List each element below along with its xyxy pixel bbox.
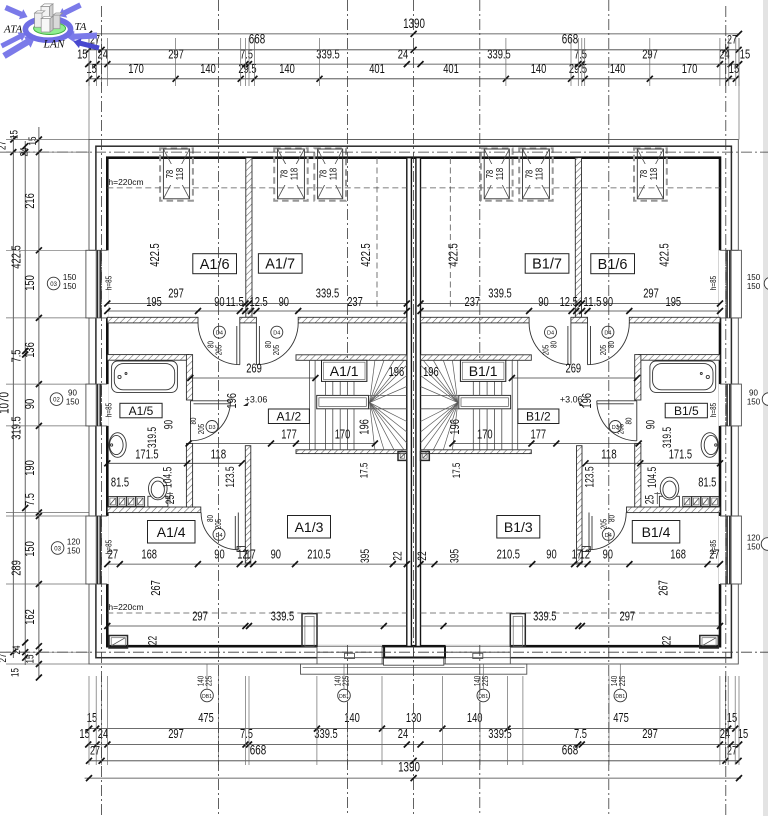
room label B1/4 — [632, 521, 680, 544]
svg-text:118: 118 — [648, 168, 660, 181]
svg-text:269: 269 — [566, 361, 582, 376]
wall W3s stairwell top — [296, 355, 407, 361]
svg-text:237: 237 — [347, 294, 363, 309]
toilet B4 — [659, 496, 679, 506]
svg-text:B1/1: B1/1 — [469, 363, 498, 379]
svg-text:150: 150 — [747, 273, 761, 282]
svg-text:27: 27 — [709, 547, 719, 562]
wall W2 right segment — [298, 317, 407, 323]
svg-text:03: 03 — [50, 282, 57, 288]
svg-text:205: 205 — [213, 519, 223, 530]
dim line 177 170 y443 — [189, 443, 375, 445]
svg-text:15: 15 — [9, 130, 21, 139]
svg-text:120: 120 — [67, 538, 81, 547]
svg-text:297: 297 — [642, 726, 658, 741]
svg-text:319.5: 319.5 — [145, 427, 159, 449]
svg-text:297: 297 — [168, 286, 184, 301]
svg-text:81.5: 81.5 — [111, 475, 129, 490]
svg-text:90: 90 — [162, 420, 176, 430]
svg-text:339.5: 339.5 — [316, 286, 339, 301]
svg-text:D4: D4 — [604, 331, 611, 337]
wall W4 lower mirror — [635, 443, 641, 507]
svg-text:17: 17 — [245, 547, 255, 562]
door D3 bathroom B5 mirror — [597, 401, 637, 441]
chimney at stair A — [398, 452, 407, 461]
svg-text:90: 90 — [279, 294, 289, 309]
room label B1/6 — [591, 254, 635, 274]
svg-text:24: 24 — [398, 726, 408, 741]
svg-text:12.5: 12.5 — [250, 294, 268, 309]
wall W4 upper — [186, 355, 192, 400]
room label B1/3 — [497, 516, 540, 539]
svg-text:195: 195 — [666, 294, 682, 309]
svg-text:205: 205 — [540, 345, 550, 356]
svg-text:15: 15 — [86, 61, 96, 76]
staircase B1/1 — [517, 360, 519, 450]
top extension lines — [88, 38, 90, 86]
wall W2 corridor left segment — [107, 317, 198, 323]
svg-text:269: 269 — [246, 361, 262, 376]
attic height dashed line top A — [107, 187, 407, 189]
svg-text:339.5: 339.5 — [314, 726, 337, 741]
window marker right bottom — [761, 538, 768, 551]
svg-text:D4: D4 — [216, 331, 223, 337]
room label A1/5 — [120, 403, 162, 418]
window in side wall — [719, 384, 740, 426]
svg-text:150: 150 — [747, 543, 761, 552]
svg-text:170: 170 — [477, 427, 493, 442]
wall W2 mirror right segment — [421, 317, 530, 323]
svg-text:195: 195 — [146, 294, 162, 309]
room width dim line y303 — [107, 303, 407, 305]
svg-text:150: 150 — [63, 282, 77, 291]
svg-text:104.5: 104.5 — [645, 466, 659, 488]
svg-text:22: 22 — [391, 551, 405, 560]
window marker right middle — [762, 393, 768, 406]
svg-text:422.5: 422.5 — [9, 245, 24, 268]
svg-text:D4: D4 — [215, 533, 222, 539]
svg-text:118: 118 — [174, 168, 186, 181]
svg-text:140: 140 — [279, 61, 295, 76]
party wall right leaf — [416, 158, 421, 647]
staircase A1/1 — [309, 360, 311, 450]
exterior wall mid line — [96, 146, 732, 658]
wall W1 between rooms 6-7 — [246, 158, 252, 318]
wall stub W6 — [237, 547, 245, 552]
window in side wall — [88, 250, 109, 318]
grid axis vertical x3 top — [347, 0, 349, 358]
wall stub W6 mirror — [582, 547, 590, 552]
svg-text:170: 170 — [128, 61, 144, 76]
svg-text:170: 170 — [335, 427, 351, 442]
svg-text:15: 15 — [10, 668, 22, 677]
svg-text:90: 90 — [644, 420, 658, 430]
wall W2 mid segment — [240, 317, 257, 323]
washer squares B — [710, 497, 719, 507]
door jamb stub B — [510, 614, 525, 647]
svg-text:B1/4: B1/4 — [642, 524, 671, 540]
svg-text:205: 205 — [196, 424, 206, 435]
svg-text:196: 196 — [357, 419, 372, 435]
svg-text:395: 395 — [358, 549, 372, 563]
window marker 03 left top — [47, 277, 60, 290]
svg-text:A1/7: A1/7 — [265, 257, 295, 273]
svg-text:150: 150 — [66, 398, 80, 407]
svg-text:D4: D4 — [273, 331, 280, 337]
svg-text:475: 475 — [198, 710, 214, 725]
svg-text:118: 118 — [328, 168, 340, 181]
svg-text:TA: TA — [75, 21, 87, 33]
svg-text:1070: 1070 — [0, 392, 12, 414]
window in side wall — [88, 384, 109, 426]
svg-text:168: 168 — [141, 547, 157, 562]
attic height dashed line bottom B — [421, 612, 721, 614]
svg-text:339.5: 339.5 — [533, 609, 556, 624]
svg-text:D4: D4 — [547, 331, 554, 337]
skylight roof window 78x118 — [314, 148, 346, 200]
svg-text:140: 140 — [344, 710, 360, 725]
party wall left leaf — [407, 158, 412, 647]
svg-text:D4: D4 — [605, 533, 612, 539]
svg-text:7.5: 7.5 — [574, 726, 587, 741]
grid axis vertical x2 mirror — [608, 0, 610, 816]
svg-text:297: 297 — [192, 609, 208, 624]
svg-text:196: 196 — [389, 364, 405, 379]
left dim column 1070 — [12, 135, 14, 658]
wall W2 mirror mid segment — [571, 317, 588, 323]
svg-text:395: 395 — [447, 549, 461, 563]
svg-text:A1/1: A1/1 — [330, 363, 359, 379]
corridor dim 269 — [190, 377, 315, 379]
left dim column 2 — [24, 141, 26, 665]
svg-text:90: 90 — [214, 547, 224, 562]
svg-text:02: 02 — [53, 398, 60, 404]
dim line 171.5 118 y463 — [107, 462, 242, 464]
dashed extension lines in rooms — [376, 158, 378, 310]
svg-text:90: 90 — [749, 389, 758, 398]
bottom dimension row 15 24 297 7.5 339.5 24 — [88, 744, 739, 746]
svg-text:A1/2: A1/2 — [277, 410, 302, 424]
svg-text:123.5: 123.5 — [582, 466, 596, 488]
bottom door opening A — [317, 645, 382, 664]
svg-text:11.5: 11.5 — [583, 294, 601, 309]
svg-text:196: 196 — [423, 364, 439, 379]
wall W5 bathroom bottom — [107, 507, 201, 513]
svg-text:29.5: 29.5 — [238, 61, 256, 76]
svg-text:168: 168 — [670, 547, 686, 562]
window in side wall — [719, 250, 740, 318]
svg-text:12.5: 12.5 — [560, 294, 578, 309]
svg-text:297: 297 — [168, 726, 184, 741]
svg-text:123.5: 123.5 — [223, 466, 237, 488]
svg-text:140: 140 — [610, 61, 626, 76]
door D4 room A4 — [201, 513, 238, 550]
svg-text:319.5: 319.5 — [9, 416, 24, 439]
svg-text:17.5: 17.5 — [358, 463, 370, 479]
grid axis vertical center party wall — [413, 0, 415, 816]
svg-text:90: 90 — [603, 547, 613, 562]
svg-text:150: 150 — [63, 273, 77, 282]
svg-text:289: 289 — [9, 560, 24, 576]
svg-text:A1/6: A1/6 — [200, 257, 230, 273]
svg-text:216: 216 — [22, 193, 37, 209]
svg-text:D3: D3 — [208, 425, 215, 431]
attic height dashed line top B — [421, 187, 721, 189]
svg-text:90: 90 — [538, 294, 548, 309]
svg-text:15: 15 — [77, 47, 87, 62]
svg-text:668: 668 — [250, 742, 266, 757]
top dimension row 1390 — [89, 33, 739, 35]
door jamb stub A — [302, 614, 317, 647]
wall W3s stairwell top mirror — [421, 355, 532, 361]
bottom dimension row 1390 — [85, 777, 741, 779]
svg-text:297: 297 — [168, 47, 184, 62]
svg-text:339.5: 339.5 — [487, 47, 510, 62]
svg-text:150: 150 — [22, 541, 37, 557]
top dimension row 15 24 297 7.5 339.5 24 — [88, 63, 739, 65]
wall W7 vertical A3-A4 mirror — [577, 446, 583, 563]
svg-text:205: 205 — [615, 424, 625, 435]
towel radiator A — [169, 492, 171, 504]
svg-text:140: 140 — [531, 61, 547, 76]
svg-text:h=85: h=85 — [708, 403, 718, 417]
washer squares A — [108, 497, 117, 507]
washbasin A5 — [109, 433, 126, 458]
svg-text:668: 668 — [249, 32, 265, 47]
svg-text:177: 177 — [281, 427, 297, 442]
svg-text:118: 118 — [288, 168, 300, 181]
svg-text:401: 401 — [369, 61, 385, 76]
toilet A4 — [148, 496, 168, 506]
svg-text:90: 90 — [546, 547, 556, 562]
svg-text:267: 267 — [148, 580, 163, 596]
svg-text:205: 205 — [598, 519, 608, 530]
svg-text:339.5: 339.5 — [488, 286, 511, 301]
bottom extension lines — [88, 676, 90, 765]
svg-text:B1/2: B1/2 — [526, 410, 551, 424]
svg-text:1390: 1390 — [403, 16, 425, 31]
door D4 room B6 mirror — [588, 323, 630, 365]
svg-text:DB1: DB1 — [615, 694, 625, 700]
svg-text:237: 237 — [465, 294, 481, 309]
window marker right top — [764, 277, 768, 290]
svg-text:319.5: 319.5 — [660, 427, 674, 449]
skylight roof window 78x118 — [634, 148, 667, 200]
wall W4 upper mirror — [635, 355, 641, 400]
svg-text:118: 118 — [534, 168, 546, 181]
room label B1/2 — [518, 409, 559, 424]
svg-text:h=85: h=85 — [104, 403, 114, 417]
svg-text:27: 27 — [0, 654, 9, 663]
svg-text:668: 668 — [562, 32, 578, 47]
bathtub A5 — [112, 361, 178, 392]
svg-text:196: 196 — [447, 419, 462, 435]
grid axis horizontal top — [0, 151, 768, 153]
svg-text:90: 90 — [271, 547, 281, 562]
svg-text:24: 24 — [720, 726, 730, 741]
svg-text:339.5: 339.5 — [488, 726, 511, 741]
svg-text:15: 15 — [738, 726, 748, 741]
door position dim line y311 — [107, 310, 407, 312]
bottom dimension row 15 475 140 130 140 475 15 — [89, 728, 735, 730]
wall W2 mirror left segment — [629, 317, 720, 323]
room label A1/7 — [258, 254, 302, 274]
svg-text:27: 27 — [90, 743, 100, 757]
wall W5 bathroom bottom mirror — [627, 507, 721, 513]
wall W8 mirror — [421, 450, 532, 454]
wall W7 vertical A3-A4 — [245, 446, 251, 563]
svg-text:B1/6: B1/6 — [598, 257, 628, 273]
svg-text:140: 140 — [200, 61, 216, 76]
DB1 door markers — [206, 665, 208, 689]
svg-text:ATA: ATA — [3, 24, 23, 36]
wall W4 lower — [186, 443, 192, 507]
svg-text:25: 25 — [163, 495, 177, 505]
svg-text:422.5: 422.5 — [358, 243, 373, 266]
svg-text:150: 150 — [67, 547, 81, 556]
dim line y564 room A3 — [107, 563, 407, 565]
svg-text:15: 15 — [729, 61, 739, 76]
skylight roof window 78x118 — [274, 148, 308, 200]
grid axis vertical right B — [725, 6, 727, 816]
svg-text:27: 27 — [0, 141, 9, 150]
svg-text:225: 225 — [617, 676, 627, 687]
left extension lines — [6, 139, 89, 141]
svg-text:DB1: DB1 — [202, 694, 212, 700]
svg-text:150: 150 — [22, 275, 37, 291]
svg-text:225: 225 — [341, 676, 351, 687]
svg-text:24: 24 — [398, 47, 408, 62]
wall W1 between rooms 6-7 mirror — [575, 158, 581, 318]
svg-text:15: 15 — [87, 710, 97, 725]
svg-text:190: 190 — [22, 460, 37, 476]
svg-text:150: 150 — [747, 398, 761, 407]
svg-text:90: 90 — [603, 294, 613, 309]
svg-text:7.5: 7.5 — [240, 726, 253, 741]
svg-text:422.5: 422.5 — [147, 243, 162, 266]
chimney bottom left — [109, 636, 128, 649]
window in side wall — [88, 516, 109, 584]
grid axis vertical x2 — [218, 0, 220, 816]
grid axis horizontal bottom — [0, 651, 768, 653]
svg-text:A1/5: A1/5 — [129, 404, 154, 418]
svg-text:h=220cm: h=220cm — [108, 177, 143, 187]
svg-text:7.5: 7.5 — [22, 493, 37, 506]
svg-text:15: 15 — [27, 137, 39, 146]
svg-text:196: 196 — [224, 393, 239, 409]
svg-text:150: 150 — [747, 282, 761, 291]
svg-text:24: 24 — [98, 726, 108, 741]
svg-text:B1/5: B1/5 — [674, 404, 699, 418]
svg-text:24: 24 — [98, 47, 108, 62]
svg-text:162: 162 — [22, 609, 37, 625]
svg-text:03: 03 — [54, 547, 61, 553]
svg-text:11.5: 11.5 — [226, 294, 244, 309]
svg-text:205: 205 — [271, 345, 281, 356]
door D4 room A6 — [198, 323, 240, 365]
room label B1/7 — [525, 254, 569, 274]
skylight roof window 78x118 — [519, 148, 553, 200]
chimney bottom right — [700, 636, 719, 649]
door D4 room B7 mirror — [529, 323, 571, 365]
svg-text:17.5: 17.5 — [451, 463, 463, 479]
svg-text:120: 120 — [747, 534, 761, 543]
svg-text:80: 80 — [623, 417, 633, 424]
room label A1/3 — [288, 516, 331, 539]
svg-text:h=85: h=85 — [104, 276, 114, 290]
svg-text:15: 15 — [24, 655, 36, 664]
svg-text:24: 24 — [11, 646, 23, 655]
dim line y626 — [107, 625, 407, 627]
door D4 room A7 — [256, 323, 298, 365]
grid axis vertical x3m top — [479, 0, 481, 358]
svg-text:267: 267 — [655, 580, 670, 596]
svg-text:422.5: 422.5 — [445, 243, 460, 266]
door D3 bathroom A5 — [191, 401, 231, 441]
svg-text:210.5: 210.5 — [497, 547, 520, 562]
svg-text:90: 90 — [214, 294, 224, 309]
svg-text:401: 401 — [443, 61, 459, 76]
left dim column 3 — [38, 127, 40, 678]
wall W3 bathroom top mirror — [639, 355, 720, 361]
attic height dashed line bottom A — [107, 612, 407, 614]
svg-text:90: 90 — [22, 399, 37, 409]
svg-text:297: 297 — [620, 609, 636, 624]
party wall footing — [384, 658, 444, 666]
logo watermark — [0, 3, 99, 59]
svg-text:25: 25 — [643, 495, 657, 505]
skylight roof window 78x118 — [481, 148, 513, 200]
svg-text:90: 90 — [68, 389, 77, 398]
svg-text:297: 297 — [643, 286, 659, 301]
window marker 02 left — [50, 393, 63, 406]
exterior step terrace — [301, 664, 527, 674]
door D4 room B4 mirror — [589, 513, 626, 550]
svg-text:22: 22 — [415, 551, 429, 560]
exterior wall inner face — [107, 158, 720, 647]
top dimension row 27-668 — [89, 49, 739, 51]
svg-text:225: 225 — [480, 676, 490, 687]
wall W8 stairwell bottom — [296, 450, 407, 454]
svg-text:225: 225 — [204, 676, 214, 687]
skylight roof window 78x118 — [160, 148, 193, 200]
window marker 03 left bottom — [51, 542, 64, 555]
room label B1/5 — [665, 403, 707, 418]
svg-text:17: 17 — [572, 547, 582, 562]
svg-text:22: 22 — [146, 636, 160, 645]
chimney at stair B — [421, 452, 430, 461]
svg-text:7.5: 7.5 — [240, 47, 253, 62]
washbasin B5 — [701, 433, 718, 458]
exterior wall outer line — [89, 140, 738, 665]
svg-text:475: 475 — [613, 710, 629, 725]
svg-text:339.5: 339.5 — [271, 609, 294, 624]
bathtub B5 — [650, 361, 716, 392]
room label A1/1 — [322, 360, 367, 381]
svg-text:81.5: 81.5 — [698, 475, 716, 490]
towel radiator B — [656, 492, 658, 504]
svg-text:h=220cm: h=220cm — [108, 602, 143, 612]
room label B1/1 — [460, 360, 505, 381]
svg-text:A1/4: A1/4 — [157, 524, 186, 540]
svg-text:15: 15 — [740, 47, 750, 62]
svg-text:205: 205 — [598, 345, 608, 356]
svg-text:15: 15 — [79, 726, 89, 741]
svg-text:B1/7: B1/7 — [532, 257, 562, 273]
svg-text:B1/3: B1/3 — [504, 519, 533, 535]
svg-text:104.5: 104.5 — [161, 466, 175, 488]
svg-text:668: 668 — [562, 742, 578, 757]
